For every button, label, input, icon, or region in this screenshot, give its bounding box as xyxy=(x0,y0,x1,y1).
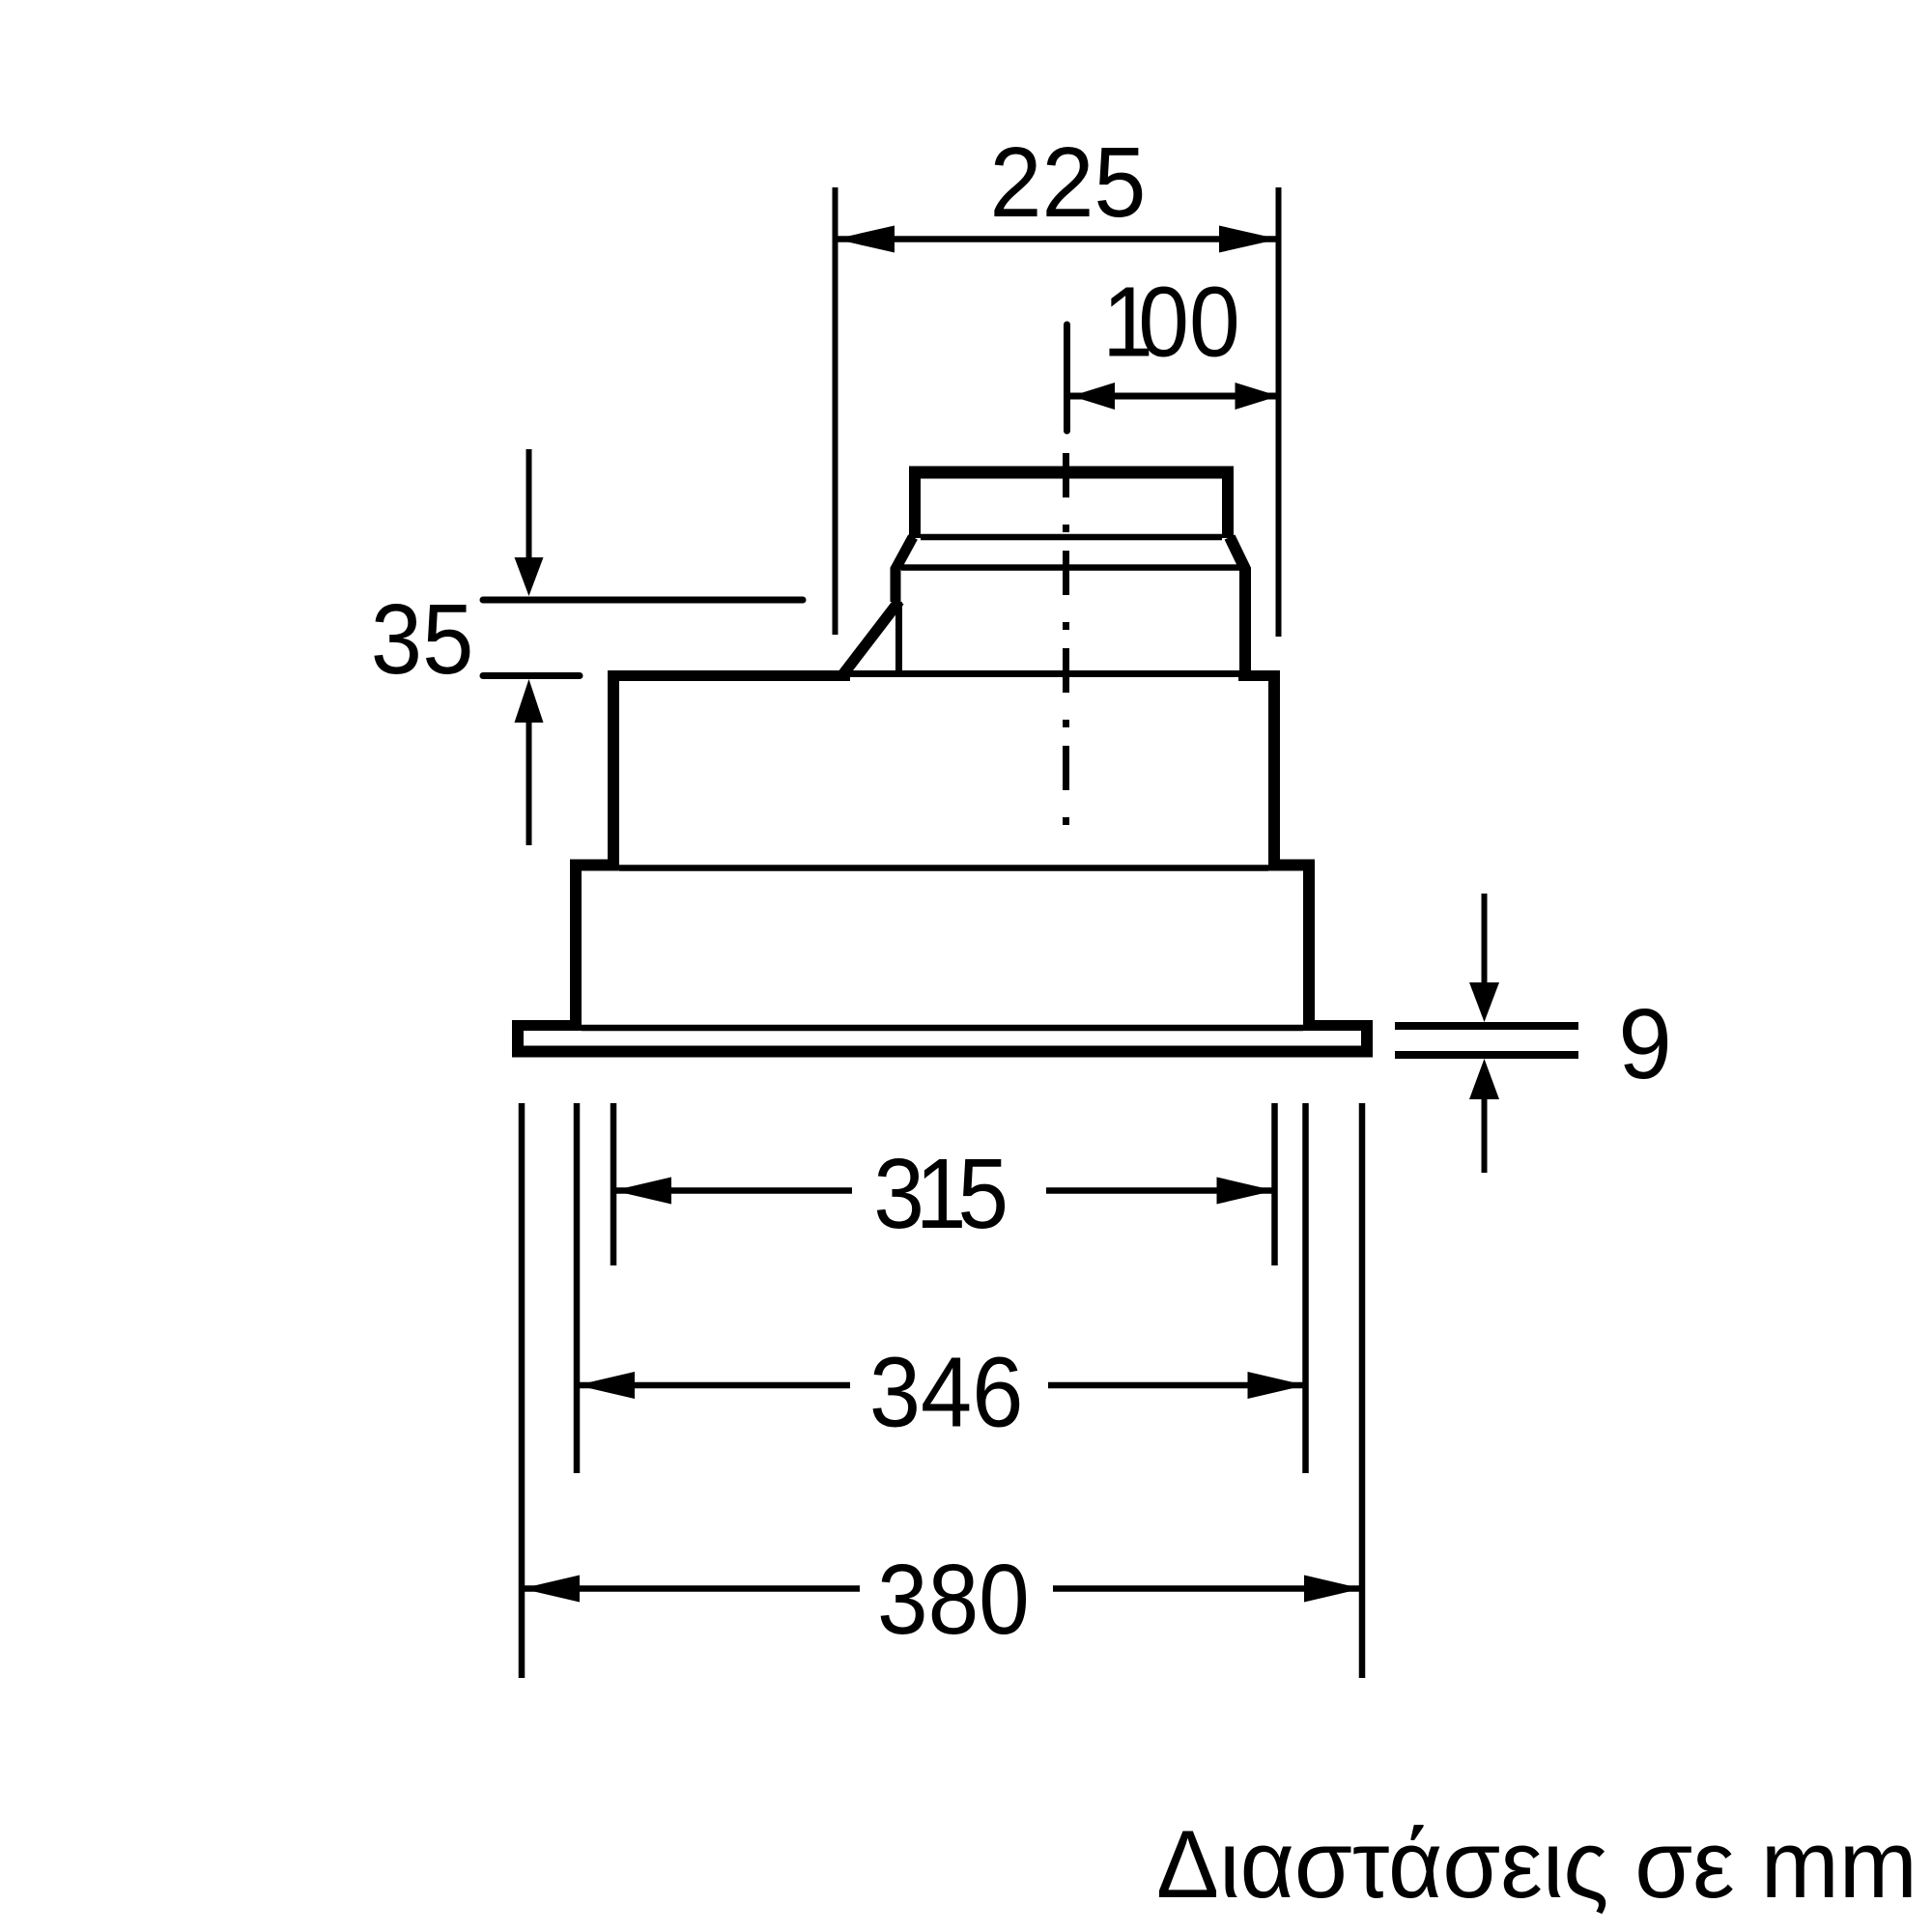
svg-text:9: 9 xyxy=(1618,988,1672,1100)
svg-text:380: 380 xyxy=(877,1544,1030,1655)
svg-text:100: 100 xyxy=(1102,266,1239,378)
svg-text:225: 225 xyxy=(990,127,1147,238)
svg-text:Διαστάσεις σε mm: Διαστάσεις σε mm xyxy=(1156,1810,1918,1918)
svg-text:346: 346 xyxy=(869,1337,1023,1448)
svg-text:315: 315 xyxy=(873,1137,1009,1249)
svg-text:35: 35 xyxy=(371,584,474,696)
